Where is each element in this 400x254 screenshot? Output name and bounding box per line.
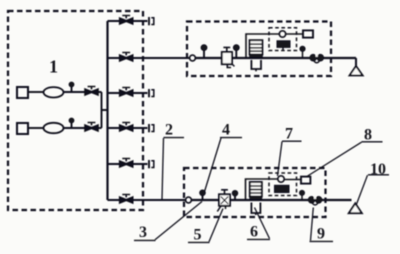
branch 3 valve <box>120 90 133 96</box>
branch 2 wire (to top unit) <box>108 57 190 59</box>
top gauge 3 <box>302 52 304 59</box>
gauge on row B <box>71 123 73 129</box>
wire cylinder B to valve B <box>64 127 86 129</box>
bottom regulator body band <box>250 197 262 200</box>
wire valve B to header bar <box>98 127 102 129</box>
top unit inlet connector <box>190 55 196 61</box>
bottom gauge 6 <box>301 195 303 200</box>
pointer 2 <box>162 138 164 199</box>
branch 1 valve <box>120 18 133 24</box>
top regulator bell <box>251 60 261 69</box>
top vent drop wire <box>355 58 357 66</box>
bottom check valve <box>308 196 315 203</box>
pointer 4 <box>203 138 221 196</box>
gauge on row A <box>71 87 73 93</box>
branch 6 wire (bottom pipeline 2) <box>108 199 186 201</box>
branch 5 end fitting <box>148 160 150 168</box>
cylinder B (ellipse) <box>44 123 64 133</box>
top setpoint block <box>303 30 313 37</box>
pilot sensing wire (bottom) <box>246 179 278 200</box>
svg-text:3: 3 <box>139 224 147 241</box>
pointer 10 <box>356 175 368 205</box>
branch 2 valve <box>120 55 133 61</box>
branch 4 wire <box>108 127 148 129</box>
top regulator body band <box>250 55 263 58</box>
cylinder square A <box>17 87 28 98</box>
branch 6 valve <box>120 197 133 203</box>
pointer 3 <box>155 202 202 240</box>
top pilot valve body <box>277 41 290 48</box>
top gauge 1 <box>203 51 205 59</box>
svg-text:1: 1 <box>49 57 58 77</box>
header join bar <box>101 92 103 128</box>
wire valve A to header bar <box>98 91 102 93</box>
cylinder square B <box>17 123 28 134</box>
wire square A to cylinder A <box>28 91 44 93</box>
valve A (hand valve) <box>85 89 98 95</box>
branch 4 end fitting <box>148 124 150 132</box>
top filter <box>222 52 232 64</box>
branch 4 valve <box>120 125 133 131</box>
branch 3 wire <box>108 92 148 94</box>
branch 1 end fitting <box>148 17 150 25</box>
wire pilot circle to setpoint block (bottom) <box>284 179 301 181</box>
bottom unit main pipe <box>191 199 351 201</box>
top vent triangle <box>350 66 363 75</box>
bottom gauge 4 <box>202 195 204 200</box>
branch 1 wire <box>108 20 148 22</box>
top gauge 2 <box>235 51 237 59</box>
manifold main line <box>106 21 108 200</box>
wire cylinder A to valve A <box>64 91 86 93</box>
pointer 9 <box>311 208 314 241</box>
branch 5 valve <box>120 161 133 167</box>
bottom pilot regulator circle <box>278 176 284 182</box>
svg-text:7: 7 <box>285 126 293 143</box>
wire pilot circle to setpoint block <box>286 33 303 35</box>
bottom pilot sub-box <box>269 173 297 196</box>
pilot sensing wire (top) <box>246 34 279 58</box>
svg-text:6: 6 <box>250 224 258 241</box>
bottom regulator bell <box>251 203 260 214</box>
svg-text:8: 8 <box>364 127 372 144</box>
wire join bar to manifold <box>102 109 108 111</box>
svg-text:9: 9 <box>317 226 325 243</box>
svg-text:4: 4 <box>222 122 230 139</box>
bottom pilot valve body <box>275 185 290 192</box>
cylinder A (ellipse) <box>44 87 64 97</box>
branch 3 end fitting <box>148 89 150 97</box>
top pilot regulator circle <box>279 31 285 37</box>
bottom vent triangle <box>349 203 362 213</box>
pointer 8 <box>306 142 362 177</box>
bottom inlet connector <box>186 197 192 203</box>
top unit main pipe <box>195 57 356 59</box>
bottom setpoint block <box>301 177 310 184</box>
bottom regulator (spring section) <box>250 182 262 197</box>
cylinder cabinet box (dashed enclosure 1) <box>8 11 143 210</box>
svg-text:5: 5 <box>194 227 202 244</box>
top pilot sub-box <box>269 28 297 51</box>
bottom filter <box>219 194 230 206</box>
top regulator (spring section) <box>250 40 263 54</box>
top check valve <box>310 54 317 61</box>
bottom gauge 5 <box>234 196 236 200</box>
pointer 5 <box>209 209 223 242</box>
top regulator unit box <box>187 22 331 77</box>
bottom regulator unit box <box>184 168 326 217</box>
wire square B to cylinder B <box>28 127 44 129</box>
pointer 7 <box>278 142 283 176</box>
branch 5 wire <box>108 163 148 165</box>
pointer 6 <box>255 208 270 239</box>
svg-text:2: 2 <box>165 122 173 139</box>
valve B (hand valve) <box>85 125 98 131</box>
